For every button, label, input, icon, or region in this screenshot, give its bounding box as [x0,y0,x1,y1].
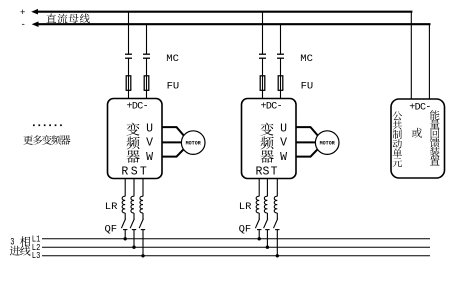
breaker QF2 pole R lower terminal [257,229,261,231]
phase line L3 [42,255,430,257]
wire reactor to breaker [124,213,126,219]
contactor MC1 pole - (plates) [143,54,150,58]
breaker QF1 pole S (blade) [130,219,134,229]
svg-text:FU: FU [167,81,180,93]
svg-text:+DC-: +DC- [260,102,282,113]
svg-text:T: T [271,166,278,179]
contactor MC1 pole + (plates) [125,54,132,58]
svg-text:FU: FU [301,81,314,93]
wire inverter U1 phase R down [124,179,126,197]
wire breaker to phase line L3 [142,230,144,256]
breaker QF2 pole S lower terminal [265,229,269,231]
svg-text:QF: QF [239,224,252,236]
label 3相进线 (3-phase input) [10,236,31,256]
breaker QF2 pole T lower terminal [275,229,279,231]
svg-text:3: 3 [10,237,14,248]
wire DC bus + (top horizontal) [31,9,412,15]
svg-text:LR: LR [105,201,118,213]
inverter U1 input terminals R S T [121,166,147,179]
wire inverter U2 phase S down [266,179,268,197]
wire from +bus to inverter 2 (+) [262,12,264,54]
junction dot on L3 [141,254,144,257]
svg-text:MOTOR: MOTOR [186,140,201,146]
junction dot on L2 [132,246,135,249]
svg-text:L3: L3 [32,250,41,261]
breaker QF1 pole T (blade) [139,219,143,229]
svg-text:S: S [262,166,269,179]
breaker QF2 pole R (blade) [255,219,259,229]
inverter U1 name 变频器 (vertical) [127,123,140,163]
reactor LR1 pole T [140,196,143,213]
breaker QF1 pole R lower terminal [123,229,127,231]
wire breaker to phase line L2 [133,230,135,248]
wire from -bus to braking unit [428,24,430,99]
wire reactor to breaker [142,213,144,219]
wire inverter U2 phase R down [258,179,260,197]
svg-text:T: T [140,166,147,179]
fuse FU2 pole + [260,76,265,91]
wire reactor to breaker [266,213,268,219]
svg-text:+DC-: +DC- [126,102,148,113]
fuse FU2 pole - [278,76,283,91]
junction dot on L2 [266,246,269,249]
wire breaker to phase line L3 [276,230,278,256]
breaker QF2 pole T (blade) [274,219,278,229]
breaker QF2 pole S (blade) [264,219,268,229]
breaker QF1 pole S lower terminal [132,229,136,231]
svg-text:MC: MC [300,53,313,65]
inverter U2 input terminals R S T [256,166,278,179]
wire from +bus to braking unit [410,12,412,100]
wire DC bus - (second horizontal) [32,21,431,27]
reactor LR1 pole S [131,196,134,213]
label 或 (or) [412,128,422,138]
braking unit alt name 能量回馈装置 (vertical) [430,110,440,165]
ellipsis dots (more units) [33,124,62,126]
breaker QF1 pole T lower terminal [141,229,145,231]
svg-text:MC: MC [166,53,179,65]
junction dot on L1 [258,237,261,240]
wire from -bus to inverter 2 (-) [280,25,282,54]
svg-text:U: U [146,122,153,135]
svg-text:W: W [280,151,287,164]
junction dot on L1 [124,237,127,240]
wire from +bus to inverter 1 (+) [128,12,130,54]
wire U2 phase V to motor [296,141,315,143]
wire from -bus to inverter 1 (-) [146,25,148,54]
svg-text:LR: LR [239,201,252,213]
svg-text:+: + [20,8,25,18]
svg-text:W: W [146,151,153,164]
reactor LR2 pole S [264,196,267,213]
wire breaker to phase line L2 [266,230,268,248]
wire U2 phase W to motor [296,149,318,157]
wire inverter U2 phase T down [276,179,278,197]
svg-text:MOTOR: MOTOR [320,140,335,146]
inverter U2 (变频器) box [242,99,297,179]
phase line L1 [42,238,430,240]
reactor LR2 pole R [256,196,259,213]
wire U1 phase V to motor [162,141,181,143]
breaker QF1 pole R (blade) [121,219,125,229]
net label 直流母线 (DC bus) [47,14,90,24]
motor M1 [181,131,205,155]
motor M2 [315,131,339,155]
braking unit U3 box [391,99,445,178]
wire inverter U1 phase T down [142,179,144,197]
wire breaker to phase line L1 [124,230,126,239]
wire inverter U1 phase S down [133,179,135,197]
reactor LR1 pole R [122,196,125,213]
svg-text:-: - [21,20,26,30]
inverter U1 (变频器) box [108,99,163,179]
wire reactor to breaker [276,213,278,219]
wire U2 phase U to motor [296,127,318,136]
fuse FU1 pole + [126,76,131,91]
inverter U2 name 变频器 (vertical) [261,123,274,163]
svg-text:V: V [146,137,153,150]
wire reactor to breaker [133,213,135,219]
phase line L2 [42,246,430,248]
junction dot on L3 [276,254,279,257]
fuse FU1 pole - [144,76,149,91]
wire breaker to phase line L1 [258,230,260,239]
braking unit name 公共制动单元 (vertical) [393,111,403,167]
svg-text:U: U [280,122,287,135]
svg-text:R: R [121,166,128,179]
contactor MC2 pole - (plates) [277,54,284,58]
svg-text:QF: QF [105,224,118,236]
svg-text:+DC-: +DC- [409,102,431,113]
contactor MC2 pole + (plates) [259,54,266,58]
reactor LR2 pole T [274,196,277,213]
svg-text:S: S [131,166,138,179]
svg-text:V: V [280,137,287,150]
label 更多变频器 (more inverters) [23,135,70,145]
wire reactor to breaker [258,213,260,219]
wire U1 phase U to motor [162,127,184,136]
wire U1 phase W to motor [162,149,184,157]
